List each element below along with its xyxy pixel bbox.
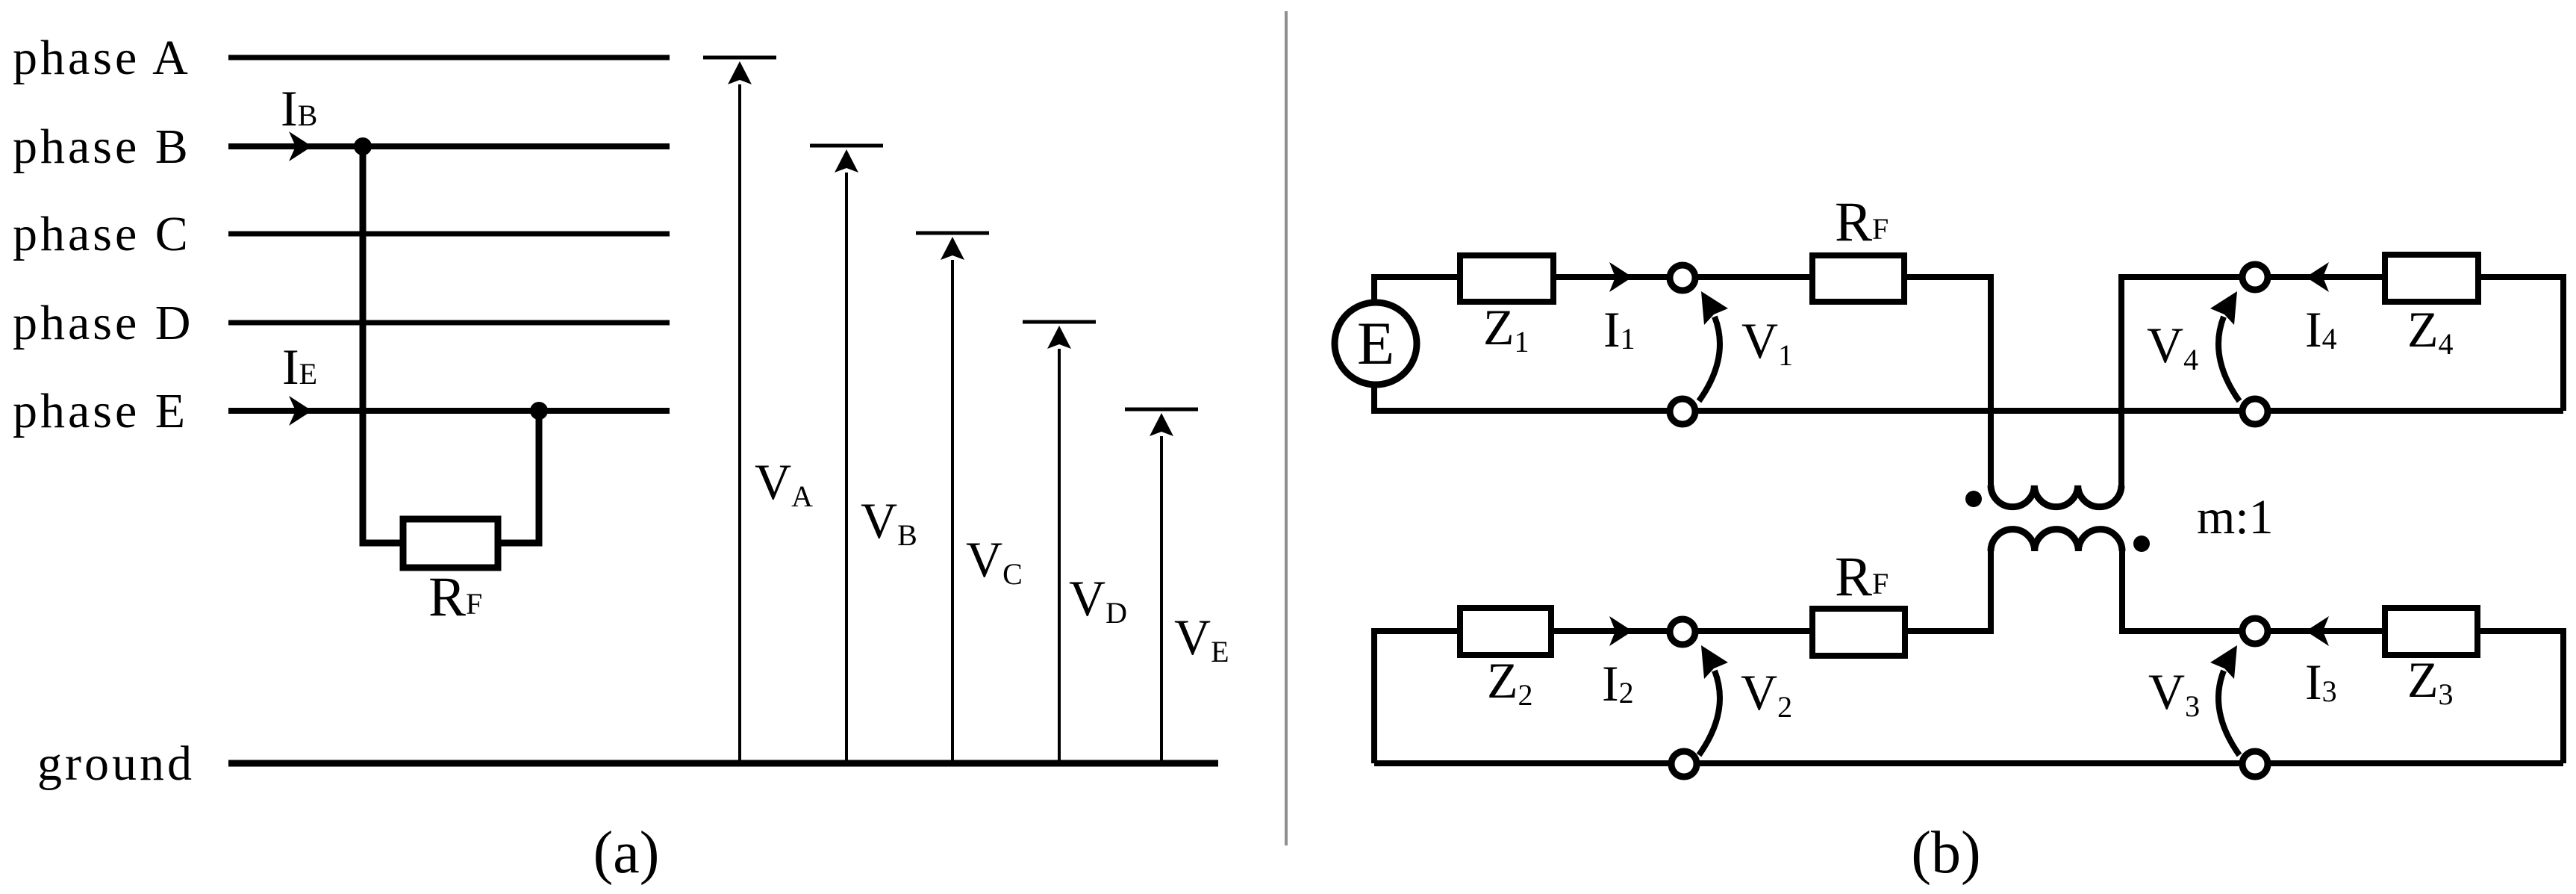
svg-text:V1: V1 [1741,312,1793,372]
svg-text:phase C: phase C [13,207,191,261]
arrowhead current I4 [2306,262,2329,292]
wire top-right loop [2121,277,2563,485]
svg-text:Z2: Z2 [1487,652,1533,712]
svg-text:VC: VC [966,531,1023,591]
arrowhead current IE [289,396,312,426]
impedance Z1 [1460,255,1553,302]
svg-text:IB: IB [281,80,317,137]
impedance Z2 [1460,608,1551,655]
node V3 minus terminal [2242,751,2268,777]
svg-text:phase D: phase D [13,296,193,350]
transformer T1 secondary winding [1991,530,2122,551]
svg-text:(b): (b) [1911,820,1980,886]
svg-text:Z3: Z3 [2407,651,2454,711]
arrowhead current I1 [1609,262,1632,292]
svg-text:phase E: phase E [13,384,188,438]
voltage arrow VE [1125,409,1198,763]
impedance Z3 [2385,608,2477,655]
wire bottom-right loop [2122,550,2563,763]
wire phase B [228,143,670,149]
wire phase C [228,232,670,237]
svg-text:IE: IE [282,338,317,395]
arrowhead current I3 [2306,616,2329,646]
resistor RF (top) [1812,255,1904,302]
svg-text:RF: RF [1835,546,1889,608]
node V1 minus terminal [1670,399,1695,424]
resistor RF (bottom) [1812,609,1905,656]
voltage reference arc V2 [1699,645,1728,755]
node V4 minus terminal [2242,399,2268,424]
source E [1335,302,1417,385]
voltage reference arc V3 [2210,645,2239,755]
node V2 plus terminal [1670,619,1695,645]
impedance Z4 [2385,255,2478,302]
wire phase D [228,320,670,326]
transformer T1 primary polarity dot [1965,491,1982,507]
arrowhead current I2 [1609,616,1632,646]
wire fault branch from phase B [363,146,403,543]
divider line between panels [1285,11,1288,845]
wire phase A [228,55,670,60]
voltage arrow VD [1023,322,1096,763]
svg-text:(a): (a) [593,820,660,886]
node V4 plus terminal [2242,264,2268,290]
wire bottom loop bottom return [1374,760,2563,766]
svg-text:I4: I4 [2305,301,2337,358]
voltage arrow VC [916,233,989,763]
svg-text:VA: VA [755,453,813,513]
node V2 minus terminal [1671,751,1697,777]
transformer T1 secondary polarity dot [2133,536,2150,552]
svg-text:I1: I1 [1603,301,1635,358]
voltage reference arc V1 [1699,291,1728,401]
svg-text:phase A: phase A [13,31,191,85]
svg-text:I3: I3 [2305,654,2337,710]
node junction on phase B [354,137,372,155]
svg-text:VE: VE [1174,609,1229,668]
svg-text:E: E [1357,309,1394,377]
svg-text:VD: VD [1069,570,1127,630]
svg-text:RF: RF [428,566,482,628]
voltage reference arc V4 [2210,291,2239,401]
wire ground [228,760,1218,767]
node V3 plus terminal [2242,618,2268,644]
svg-text:RF: RF [1835,191,1889,253]
svg-text:V3: V3 [2148,663,2200,723]
transformer T1 primary winding [1991,485,2121,507]
wire bottom loop left and main [1374,550,1991,763]
wire phase E [228,408,670,414]
wire fault branch from phase E [498,411,539,543]
voltage arrow VB [810,146,883,763]
voltage arrow VA [703,58,776,763]
svg-text:V4: V4 [2147,317,2198,376]
resistor RF (panel a) [403,519,498,568]
wire top loop lower return [1374,385,2563,411]
wire top loop upper (E to RF to transformer primary) [1374,277,1991,485]
svg-text:Z4: Z4 [2407,301,2454,361]
svg-text:V2: V2 [1741,664,1792,724]
svg-text:I2: I2 [1602,655,1634,712]
svg-text:phase B: phase B [13,119,191,174]
svg-text:ground: ground [37,736,195,791]
svg-text:Z1: Z1 [1483,299,1529,358]
arrowhead current IB [289,131,312,161]
svg-text:VB: VB [861,492,917,552]
node V1 plus terminal [1670,265,1695,291]
node junction on phase E [530,402,548,420]
svg-text:m:1: m:1 [2197,490,2274,544]
